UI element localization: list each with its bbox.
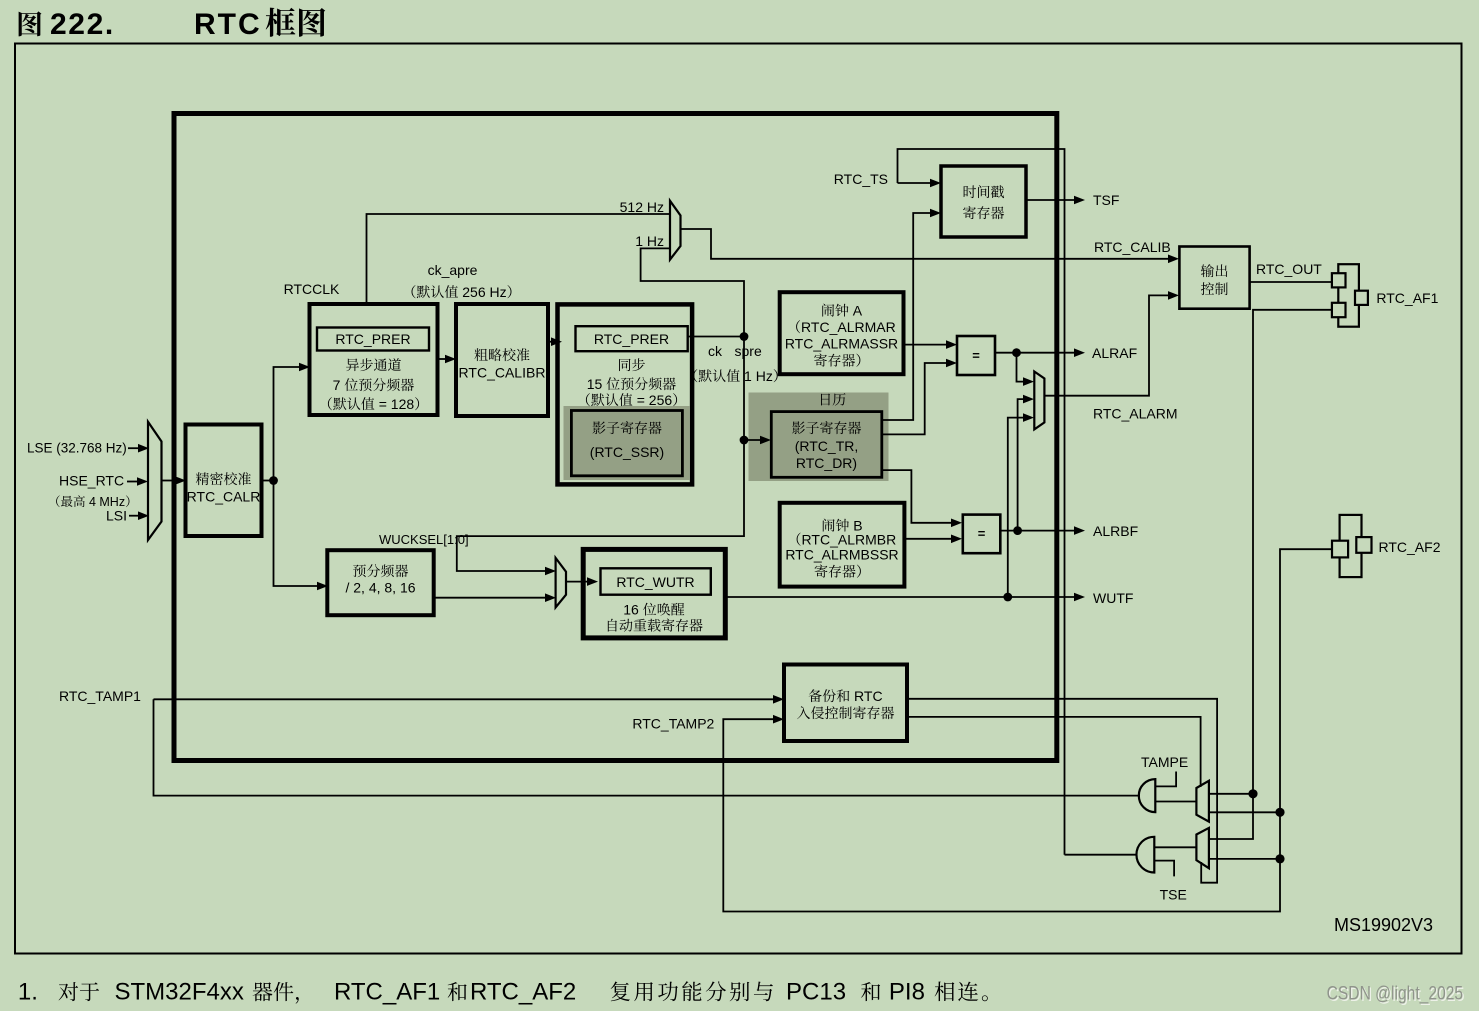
wire RTC_TS into timestamp (898, 182, 932, 184)
svg-text:TAMPE: TAMPE (1141, 754, 1188, 770)
wire LSE (128, 447, 140, 449)
svg-text:TSF: TSF (1093, 192, 1119, 208)
svg-text:PC13: PC13 (786, 979, 846, 1006)
wire TSE mux out to gate (1154, 846, 1196, 848)
clock source mux (148, 422, 162, 540)
wire AF2 pad feedback / RTC_TAMP2 (723, 549, 1332, 911)
RTC_PRER sub-box (async) (317, 328, 429, 351)
svg-text:RTC_ALRMBSSR: RTC_ALRMBSSR (785, 547, 898, 563)
svg-text:RTC_TAMP2: RTC_TAMP2 (632, 716, 714, 732)
wire alarm A to comparator (904, 344, 949, 346)
svg-text:STM32F4xx: STM32F4xx (115, 979, 244, 1006)
svg-text:512 Hz: 512 Hz (620, 199, 664, 215)
svg-text:RTC_ALARM: RTC_ALARM (1093, 406, 1178, 422)
calendar highlight band (749, 393, 889, 482)
svg-text:RTC_AF2: RTC_AF2 (1379, 539, 1441, 555)
RTC block thick frame (174, 114, 1057, 761)
node AF2 feedback junction 1 (1275, 808, 1284, 817)
svg-text:=: = (379, 396, 387, 412)
wire HSE_RTC (127, 481, 139, 483)
wire RTC_ALARM to output control (1044, 295, 1170, 395)
svg-text:RTC_CALR: RTC_CALR (187, 489, 261, 505)
coarse calibration text (474, 348, 487, 361)
svg-text:RTC_TAMP1: RTC_TAMP1 (59, 688, 141, 704)
async 7-bit prescaler box (310, 304, 438, 415)
svg-text:16: 16 (623, 602, 639, 618)
svg-text:LSI: LSI (106, 508, 127, 524)
timestamp register box (941, 166, 1026, 237)
wire AF1 pad feedback to TSE mux (1209, 310, 1332, 839)
wire TAMPE mux input 1 (1209, 793, 1253, 795)
comparator A box (957, 336, 995, 375)
wire alarm B to comparator (904, 538, 953, 540)
wire 512 Hz to output mux (367, 214, 671, 304)
svg-text:1.: 1. (18, 979, 38, 1006)
wire into calendar (744, 439, 762, 441)
alarm B registers box (780, 503, 905, 587)
wire to sync prescaler (548, 341, 553, 343)
wire ALRAF out (995, 352, 1074, 354)
wire TAMPE enable (1155, 772, 1176, 787)
svg-text:ck_apre: ck_apre (428, 262, 478, 278)
timestamp box text (964, 185, 976, 198)
AND gate TAMPE (1139, 779, 1156, 812)
svg-text:RTC_ALRMASSR: RTC_ALRMASSR (785, 336, 898, 352)
shadow register highlight band (sync prescaler) (564, 406, 690, 480)
svg-text:RTC_PRER: RTC_PRER (594, 331, 669, 347)
svg-text:222.: 222. (50, 8, 115, 41)
wire RTCCLK down to wakeup prescaler (274, 481, 319, 587)
wakeup prescaler /2 4 8 16 box (327, 550, 433, 615)
svg-text:TSE: TSE (1160, 887, 1187, 903)
svg-text:(RTC_TR,: (RTC_TR, (795, 438, 859, 454)
wire RTC_CALR out (262, 480, 274, 482)
svg-text:=: = (637, 392, 645, 408)
svg-text:RTC: RTC (194, 8, 262, 41)
RTC_WUTR sub-box (601, 568, 711, 594)
wire TSE mux input 2 (1209, 858, 1280, 860)
wire RTC_CALIB (681, 229, 1171, 259)
svg-text:Hz: Hz (490, 284, 507, 300)
output control text (1201, 264, 1214, 277)
calendar shadow registers RTC_TR RTC_DR box (771, 412, 882, 478)
node calendar input junction (740, 436, 749, 445)
svg-text:WUCKSEL[1:0]: WUCKSEL[1:0] (379, 532, 469, 547)
svg-text:RTC_AF1: RTC_AF1 (1376, 290, 1438, 306)
RTC_PRER sub-box (sync) (576, 326, 688, 351)
wire TAMPE mux out to gate (1155, 801, 1196, 803)
svg-text:RTC_WUTR: RTC_WUTR (616, 574, 694, 590)
svg-text:256: 256 (462, 284, 486, 300)
backup and tamper control registers box (784, 665, 907, 742)
svg-text:Hz: Hz (756, 368, 773, 384)
svg-text:RTC_DR): RTC_DR) (796, 455, 857, 471)
svg-text:RTC_ALRMAR: RTC_ALRMAR (801, 319, 896, 335)
svg-text:RTC_TS: RTC_TS (834, 171, 888, 187)
svg-text:RTC_AF1: RTC_AF1 (334, 979, 440, 1006)
svg-text:RTCCLK: RTCCLK (284, 281, 340, 297)
svg-text:PI8: PI8 (889, 979, 925, 1006)
wire RTC_TS feedback from TSE gate (898, 149, 1065, 855)
svg-text:RTC_CALIB: RTC_CALIB (1094, 239, 1171, 255)
svg-text:CSDN @light_2025: CSDN @light_2025 (1327, 984, 1464, 1005)
wire TAMPE mux input 2 (1209, 811, 1280, 813)
wire TSE enable (1154, 861, 1174, 877)
TAMPE input mux (1196, 781, 1209, 822)
svg-text:LSE (32.768 Hz): LSE (32.768 Hz) (27, 441, 127, 456)
RTC_CALR box text (196, 472, 209, 485)
wire mux to RTC_CALR (162, 480, 178, 482)
node ALRAF junction (1012, 348, 1021, 357)
svg-text:MS19902V3: MS19902V3 (1334, 915, 1433, 935)
svg-text:=: = (972, 348, 980, 363)
svg-text:RTC_PRER: RTC_PRER (335, 331, 410, 347)
wire TAMPE mux select from backup box (907, 717, 1201, 787)
wire RTC_TAMP1 into backup box (154, 698, 776, 700)
svg-text:RTC_OUT: RTC_OUT (1256, 261, 1322, 277)
wire WUTF to alarm mux (1008, 418, 1025, 597)
TSE input mux (1196, 828, 1209, 868)
wire ALRAF to alarm mux (1017, 353, 1026, 382)
wire RTC_TAMP1 from TAMPE gate (154, 699, 1141, 795)
node WUTF junction (1003, 593, 1012, 602)
wire calendar to timestamp register (882, 213, 931, 420)
comparator B box (963, 515, 1001, 554)
svg-text:1 Hz: 1 Hz (635, 233, 664, 249)
calibration output mux (670, 201, 681, 260)
node ALRBF junction (1013, 526, 1022, 535)
wire calendar to comparator A (882, 363, 948, 434)
svg-text:=: = (978, 526, 986, 541)
svg-text:RTC_ALRMBR: RTC_ALRMBR (802, 532, 897, 548)
svg-text:ck: ck (708, 343, 723, 359)
svg-text:(RTC_SSR): (RTC_SSR) (590, 444, 664, 460)
wakeup clock mux WUCKSEL (556, 558, 566, 608)
svg-text:256: 256 (649, 392, 673, 408)
wire ck_spre to wakeup mux (457, 440, 744, 571)
svg-text:7: 7 (333, 377, 341, 393)
svg-text:/ 2, 4, 8, 16: / 2, 4, 8, 16 (345, 580, 415, 596)
svg-text:HSE_RTC: HSE_RTC (59, 473, 124, 489)
svg-text:128: 128 (391, 396, 415, 412)
wire TSF out (1026, 199, 1074, 201)
svg-text:RTC_CALIBR: RTC_CALIBR (459, 365, 546, 381)
svg-text:ALRBF: ALRBF (1093, 523, 1138, 539)
alarm event mux (1034, 372, 1044, 430)
wire to RTC_WUTR (566, 581, 588, 583)
RTC_AF2 pad symbol (1340, 515, 1362, 577)
wire prescaler to wakeup mux (434, 597, 546, 599)
wire LSI (129, 515, 140, 517)
smooth calibration RTC_CALR box (186, 425, 262, 537)
wire RTC_OUT to pad (1250, 281, 1332, 283)
node ck_spre (740, 332, 749, 341)
title (19, 11, 42, 36)
svg-text:WUTF: WUTF (1093, 590, 1133, 606)
wire ALRBF to alarm mux (1018, 399, 1025, 530)
svg-text:ALRAF: ALRAF (1092, 345, 1137, 361)
shadow register RTC_SSR box (571, 411, 682, 476)
coarse calibration RTC_CALIBR box (456, 304, 548, 416)
alarm A registers box (780, 292, 904, 374)
svg-text:A: A (853, 303, 863, 319)
wakeup timer RTC_WUTR box (583, 549, 725, 638)
wire calendar to comparator B (882, 470, 953, 523)
wire TSE gate out to RTC_TS line (1065, 854, 1138, 856)
wire ck_spre (688, 336, 744, 338)
svg-text:1: 1 (744, 368, 752, 384)
output control box (1179, 247, 1249, 309)
svg-text:15: 15 (587, 376, 603, 392)
alarm A text (822, 304, 834, 317)
wire 1 Hz feedback to output mux (641, 248, 744, 336)
node AF1 feedback junction (1248, 789, 1257, 798)
calendar text (821, 394, 830, 406)
wire TSE mux select from backup box (907, 699, 1217, 883)
wire ALRBF out (1000, 530, 1074, 532)
wire ck_spre down (743, 337, 745, 441)
RTC_AF1 pad symbol (1338, 264, 1359, 327)
wire WUTF out (725, 596, 1074, 598)
svg-text:4: 4 (89, 495, 96, 509)
node RTCCLK junction (269, 476, 278, 485)
wire ck_apre to coarse calibration (438, 358, 448, 360)
sync 15-bit prescaler box (558, 304, 693, 484)
wire RTCCLK up to async prescaler (274, 367, 301, 481)
svg-text:RTC: RTC (854, 688, 883, 704)
AND gate TSE (1136, 837, 1154, 873)
alarm B text (823, 519, 835, 532)
node AF2 feedback junction 2 (1275, 854, 1284, 863)
svg-text:RTC_AF2: RTC_AF2 (470, 979, 576, 1006)
svg-text:spre: spre (735, 343, 762, 359)
